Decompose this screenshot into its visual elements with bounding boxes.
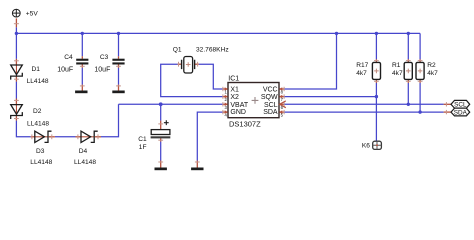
capacitor C4 plates — [76, 59, 88, 65]
ground G3 (C1) — [155, 168, 167, 171]
svg-text:32.768KHz: 32.768KHz — [196, 47, 229, 54]
svg-text:R2: R2 — [427, 62, 436, 69]
wire SDA line — [284, 111, 443, 113]
svg-text:C4: C4 — [64, 54, 73, 61]
svg-text:IC1: IC1 — [228, 75, 239, 82]
wire GND pin to ground — [197, 112, 222, 160]
svg-text:4k7: 4k7 — [356, 70, 367, 77]
wire D1 to D2 — [15, 82, 17, 99]
diode D4 — [81, 131, 98, 142]
node tag SCL — [451, 100, 470, 108]
node tag SDA — [451, 108, 470, 116]
svg-text:SCL: SCL — [264, 102, 278, 109]
resistor R2 — [416, 62, 424, 79]
svg-text:R17: R17 — [356, 62, 368, 69]
svg-text:3: 3 — [225, 105, 228, 110]
svg-text:DS1307Z: DS1307Z — [229, 120, 261, 129]
wire R17 top — [375, 33, 377, 59]
wire C3 drop — [118, 33, 120, 56]
wire R17 bottom to K6 — [375, 83, 377, 141]
svg-text:C1: C1 — [138, 136, 147, 143]
svg-text:4k7: 4k7 — [427, 70, 438, 77]
diode D1 — [11, 65, 23, 80]
wire crystal left to X2 — [161, 64, 223, 96]
wire C3 to ground — [118, 68, 120, 85]
svg-text:LL4148: LL4148 — [74, 159, 96, 166]
wire R2 top — [419, 33, 421, 59]
node junction dots — [15, 32, 422, 114]
svg-text:SDA: SDA — [454, 109, 468, 116]
svg-text:6: 6 — [281, 105, 284, 110]
svg-text:4: 4 — [225, 113, 228, 118]
svg-text:10uF: 10uF — [57, 66, 73, 73]
wire VCC riser — [284, 33, 336, 89]
wire C1 to ground — [160, 142, 162, 161]
svg-text:1: 1 — [225, 90, 228, 95]
svg-text:Q1: Q1 — [173, 47, 182, 54]
wire D1 feed — [15, 33, 17, 59]
wire C4 to ground — [81, 68, 83, 85]
wire VBAT line — [119, 103, 223, 105]
svg-text:SCL: SCL — [454, 102, 467, 109]
K6 pad — [373, 141, 382, 149]
IC pin arrows right — [279, 87, 282, 114]
svg-text:LL4148: LL4148 — [27, 78, 49, 85]
resistor R1 — [404, 62, 412, 79]
ground G4 (IC GND) — [191, 168, 203, 171]
ground G1 (C4) — [75, 91, 87, 94]
wire R2 bottom to SDA — [419, 83, 421, 112]
resistor R17 — [372, 62, 380, 79]
power +5V symbol — [12, 9, 20, 17]
svg-text:D2: D2 — [33, 108, 42, 115]
wire R1 top — [407, 33, 409, 59]
svg-text:GND: GND — [230, 109, 246, 116]
svg-text:7: 7 — [281, 97, 284, 102]
svg-text:D4: D4 — [79, 148, 88, 155]
IC SCL clock arrow — [280, 101, 286, 108]
svg-text:VBAT: VBAT — [230, 102, 248, 109]
svg-text:10uF: 10uF — [94, 66, 110, 73]
svg-text:4k7: 4k7 — [392, 70, 403, 77]
wire C1 branch — [160, 104, 162, 120]
svg-text:K6: K6 — [362, 142, 370, 149]
svg-text:+5V: +5V — [26, 10, 39, 17]
svg-text:VCC: VCC — [263, 87, 278, 94]
svg-text:2: 2 — [225, 97, 228, 102]
svg-text:C3: C3 — [100, 54, 109, 61]
svg-text:LL4148: LL4148 — [27, 121, 49, 128]
svg-text:X2: X2 — [230, 94, 239, 101]
IC pin arrows left — [225, 87, 228, 114]
red component pin stubs — [16, 18, 451, 167]
wire SCL line — [284, 103, 443, 105]
svg-text:LL4148: LL4148 — [30, 159, 52, 166]
capacitor C3 plates — [112, 59, 124, 65]
wire D2 to bottom rail corner — [16, 121, 30, 137]
diode D3 — [35, 131, 52, 142]
svg-text:SQW: SQW — [261, 94, 278, 101]
ground G2 (C3) — [112, 91, 124, 94]
op IC1 DS1307Z box — [228, 83, 279, 118]
crystal Q1 — [182, 57, 195, 74]
svg-text:SDA: SDA — [263, 109, 278, 116]
svg-text:X1: X1 — [230, 87, 239, 94]
wire D3 to D4 — [55, 136, 76, 138]
wire top +5V rail — [16, 27, 420, 33]
wire SQW to R17 — [284, 96, 376, 98]
svg-text:8: 8 — [281, 90, 284, 95]
svg-text:1F: 1F — [139, 144, 147, 151]
pin tick crosses — [14, 24, 447, 162]
wire crystal right to X1 — [199, 64, 223, 89]
wire D4 to riser — [101, 104, 119, 137]
svg-text:R1: R1 — [392, 62, 401, 69]
svg-text:D3: D3 — [36, 148, 45, 155]
capacitor C1 electrolytic — [151, 120, 171, 138]
wire R1 bottom to SCL — [407, 83, 409, 104]
wire C4 drop — [81, 33, 83, 56]
svg-text:5: 5 — [281, 113, 284, 118]
diode D2 — [11, 105, 23, 120]
svg-text:D1: D1 — [32, 66, 41, 73]
